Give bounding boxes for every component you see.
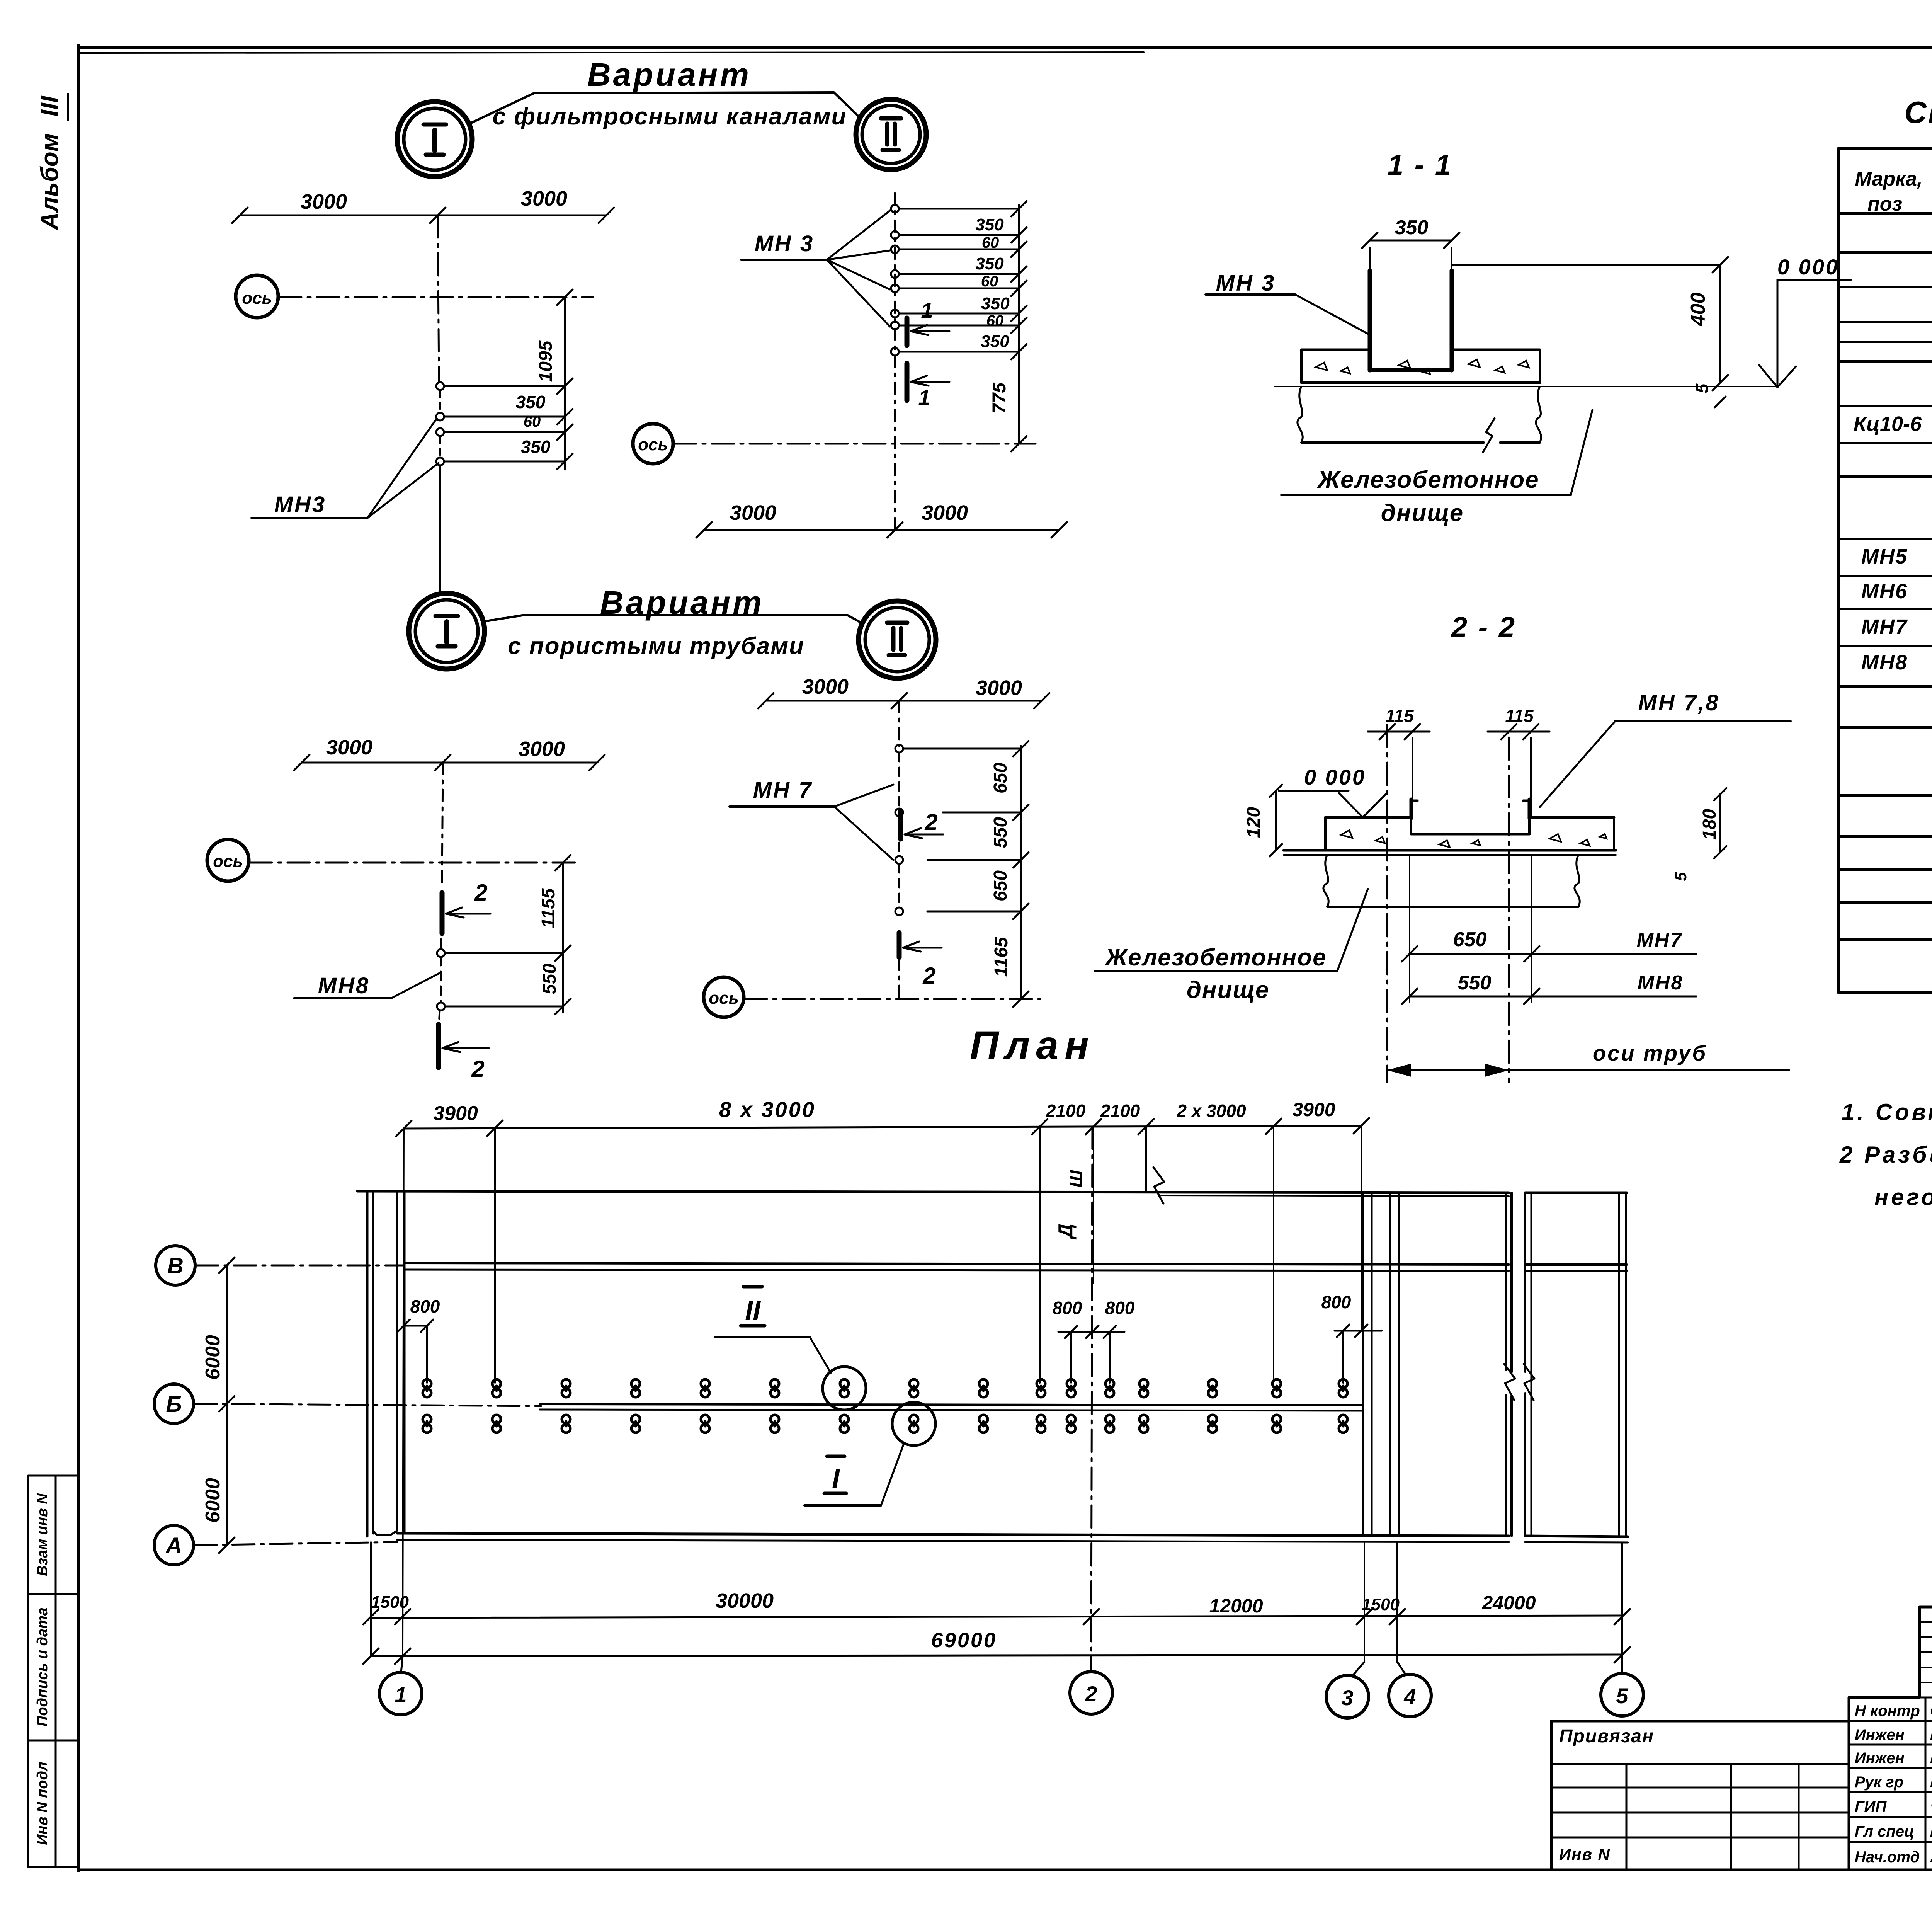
svg-text:2: 2 <box>471 1056 484 1082</box>
deformation joint label Дш <box>1054 1127 1094 1284</box>
aggregate marks (section 2-2) <box>1341 830 1607 847</box>
svg-text:650: 650 <box>990 763 1011 793</box>
svg-text:Инжен: Инжен <box>1855 1726 1905 1743</box>
label МН3 with leader (drawing A) <box>252 419 439 518</box>
svg-text:800: 800 <box>1321 1292 1351 1312</box>
spec row МН8 <box>1861 646 1932 675</box>
svg-text:I: I <box>832 1463 840 1494</box>
svg-text:350: 350 <box>981 294 1010 313</box>
section mark 1 upper (drawing B) <box>907 298 949 346</box>
embed circles МН3 (drawing B) <box>891 205 899 356</box>
svg-text:Альбом: Альбом <box>36 133 63 231</box>
circled rivet II (plan) <box>823 1367 866 1410</box>
plan axis 1 vertical <box>401 1129 404 1672</box>
svg-text:3900: 3900 <box>433 1102 478 1125</box>
svg-text:1095: 1095 <box>536 340 556 382</box>
svg-text:Козловичер: Козловичер <box>1930 1825 1932 1840</box>
svg-text:МН 3: МН 3 <box>755 231 815 256</box>
svg-text:3000: 3000 <box>301 190 347 213</box>
title block frame <box>1849 1607 1932 1870</box>
axis circle ось (drawing D) <box>704 977 1040 1017</box>
svg-text:2 x 3000: 2 x 3000 <box>1176 1101 1246 1121</box>
svg-text:0 000: 0 000 <box>1304 765 1366 789</box>
svg-text:60: 60 <box>524 413 541 430</box>
dimension line 3000/3000 (drawing A top) <box>232 187 614 223</box>
svg-text:60: 60 <box>981 273 998 290</box>
axis circle ось (drawing C) <box>207 839 580 881</box>
dim 180 (section 2-2) <box>1699 788 1726 858</box>
dimension line 3000/3000 (drawing D top) <box>758 675 1049 708</box>
svg-text:2: 2 <box>474 880 487 906</box>
plan joint walls axes 3-4 <box>1363 1193 1399 1536</box>
vertical dim 6000/6000 (plan left) <box>202 1258 235 1553</box>
svg-text:Чирков: Чирков <box>1930 1798 1932 1815</box>
svg-text:2: 2 <box>922 963 935 989</box>
axis circle ось (drawing A) <box>236 275 593 318</box>
svg-text:5: 5 <box>1693 383 1712 393</box>
axis bubble 5 (plan) <box>1601 1674 1643 1716</box>
svg-text:днище: днище <box>1381 500 1464 526</box>
section bubble II (variant 2) <box>859 601 936 678</box>
centerline drawing D <box>898 701 900 999</box>
axis circle Б <box>154 1384 541 1423</box>
svg-text:2 Разбивка закладных изде: 2 Разбивка закладных изделий для сред- <box>1839 1142 1932 1168</box>
svg-text:2100: 2100 <box>1046 1101 1086 1121</box>
dim lines 350/60/350 (drawing A) <box>445 386 565 461</box>
svg-text:2100: 2100 <box>1100 1101 1140 1121</box>
svg-text:1155: 1155 <box>538 888 559 928</box>
break marks on plan walls <box>1153 1167 1534 1400</box>
title block role labels and names <box>1855 1702 1932 1866</box>
axis bubble 4 (plan) <box>1389 1674 1431 1717</box>
section mark 2 upper (drawing C) <box>442 880 490 933</box>
svg-text:ГИП: ГИП <box>1855 1798 1887 1815</box>
svg-text:350: 350 <box>981 332 1009 351</box>
svg-text:МН8: МН8 <box>1638 972 1684 994</box>
svg-text:12000: 12000 <box>1209 1595 1263 1617</box>
svg-text:0 000: 0 000 <box>1777 255 1839 279</box>
label II with leader (plan) <box>715 1287 831 1373</box>
plan axis 2 vertical <box>1091 1127 1092 1671</box>
dim lines 350/60 set (drawing B) <box>900 209 1019 352</box>
spec table grid <box>1838 149 1932 992</box>
svg-text:Вариант: Вариант <box>587 56 751 93</box>
svg-text:60: 60 <box>986 312 1004 329</box>
vertical dim line drawing B <box>989 201 1027 451</box>
svg-text:3000: 3000 <box>730 501 776 524</box>
svg-text:Привязан: Привязан <box>1559 1726 1654 1747</box>
title block name rows grid <box>1849 1697 1932 1870</box>
svg-text:Альтшуллер: Альтшуллер <box>1930 1851 1932 1865</box>
svg-text:4: 4 <box>1403 1684 1416 1709</box>
svg-text:550: 550 <box>990 817 1011 848</box>
svg-text:ось: ось <box>213 852 243 871</box>
dim lines 1155/550 (drawing C) <box>446 855 571 1014</box>
svg-text:Подпись и дата: Подпись и дата <box>34 1607 51 1726</box>
axis bubble 1 (plan) <box>379 1672 422 1715</box>
section mark 1 lower (drawing B) <box>907 363 949 410</box>
centerline drawing C <box>439 763 443 1024</box>
binding table Привязан <box>1551 1721 1849 1870</box>
svg-text:Рук гр: Рук гр <box>1855 1774 1903 1791</box>
svg-text:115: 115 <box>1385 706 1414 726</box>
svg-text:350: 350 <box>516 392 546 412</box>
svg-text:Цветкова: Цветкова <box>1930 1750 1932 1767</box>
axis circle В <box>156 1246 404 1285</box>
centerline drawing A <box>438 215 440 591</box>
dim 5 (section 2-2) <box>1672 872 1690 881</box>
svg-text:550: 550 <box>1458 972 1492 994</box>
svg-text:А: А <box>165 1533 182 1558</box>
grid extension verticals from top dims <box>495 1126 1361 1383</box>
svg-text:ось: ось <box>242 289 272 308</box>
rivet embed pairs row (plan) <box>423 1379 1347 1433</box>
level mark 0.000 (section 2-2) <box>1279 765 1387 817</box>
svg-text:1 - 1: 1 - 1 <box>1388 149 1452 181</box>
dim 800 right (plan) <box>1321 1292 1382 1383</box>
dim lines 650/550/650/1165 (drawing D) <box>904 741 1029 1007</box>
level mark 0.000 (section 1-1) <box>1759 255 1851 387</box>
circled rivet I (plan) <box>892 1402 935 1445</box>
spec table header texts <box>1855 163 1932 215</box>
svg-text:ось: ось <box>709 989 738 1008</box>
svg-text:ось: ось <box>638 435 668 454</box>
bottom slab днище (section 1-1) <box>1298 386 1541 452</box>
svg-text:Инв N: Инв N <box>1559 1845 1611 1863</box>
label МН 7,8 (section 2-2) <box>1540 690 1791 807</box>
centerline drawing B <box>894 193 896 530</box>
spec row МН5 <box>1861 543 1932 568</box>
svg-text:Инжен: Инжен <box>1855 1750 1905 1767</box>
topping slab (section 1-1) <box>1275 350 1777 386</box>
dims 800 800 near axis 2 (plan) <box>1053 1298 1135 1383</box>
label МН8 with leader (drawing C) <box>294 973 439 998</box>
channel walls МН3 (section 1-1) <box>1370 271 1452 370</box>
vertical dim line 1095 (drawing A) <box>536 289 573 470</box>
leader line variant1 <box>469 92 859 124</box>
embed circles МН7 (drawing D) <box>895 745 903 915</box>
svg-text:1165: 1165 <box>991 936 1012 977</box>
label МН 3 (section 1-1) <box>1206 271 1371 335</box>
svg-text:поз: поз <box>1867 193 1902 215</box>
label Железобетонное днище (section 1-1) <box>1281 410 1592 526</box>
svg-text:2: 2 <box>924 809 937 835</box>
svg-text:800: 800 <box>410 1296 440 1316</box>
svg-text:650: 650 <box>1453 928 1487 951</box>
svg-text:180: 180 <box>1699 809 1720 840</box>
axis bubble 3 (plan) <box>1326 1675 1369 1718</box>
label оси труб (section 2-2) <box>1387 1041 1789 1077</box>
svg-text:2: 2 <box>1085 1682 1097 1706</box>
svg-text:МН3: МН3 <box>274 492 326 517</box>
pipe axis lines (section 2-2) <box>1387 725 1509 1082</box>
section mark 2 upper (drawing D) <box>901 809 943 839</box>
svg-text:69000: 69000 <box>931 1629 997 1652</box>
svg-text:2 - 2: 2 - 2 <box>1451 611 1516 643</box>
svg-text:Кц10-6: Кц10-6 <box>1854 412 1922 436</box>
axis circle ось (drawing B) <box>633 424 1036 464</box>
svg-text:Марка,: Марка, <box>1855 168 1923 190</box>
svg-text:днище: днище <box>1187 977 1270 1003</box>
svg-text:24000: 24000 <box>1481 1592 1536 1614</box>
svg-text:3: 3 <box>1341 1685 1353 1710</box>
leader line variant2 <box>484 615 862 623</box>
svg-text:5: 5 <box>1616 1684 1628 1708</box>
axis circle А <box>154 1525 397 1565</box>
svg-text:МН6: МН6 <box>1861 580 1908 603</box>
svg-text:350: 350 <box>975 215 1004 234</box>
label МН3 with leaders (drawing B) <box>741 211 890 327</box>
svg-text:800: 800 <box>1053 1298 1082 1318</box>
svg-text:115: 115 <box>1505 706 1534 726</box>
svg-text:Нач.отд: Нач.отд <box>1855 1849 1920 1866</box>
svg-text:3000: 3000 <box>922 501 968 524</box>
subtitle с фильтросными каналами <box>492 103 847 130</box>
spec row МН6 <box>1861 578 1932 603</box>
svg-text:650: 650 <box>990 870 1011 901</box>
svg-text:1: 1 <box>921 298 933 322</box>
svg-text:1. Совместно с данным см л: 1. Совместно с данным см л л КЖ-46,47 <box>1842 1099 1932 1125</box>
spec row МН7 <box>1861 610 1932 639</box>
subtitle с пористыми трубами <box>508 633 804 659</box>
svg-text:с фильтросными каналами: с фильтросными каналами <box>492 103 847 130</box>
dim 350 (section 1-1) <box>1362 216 1459 271</box>
label I with leader (plan) <box>804 1445 903 1505</box>
svg-text:Спецификация: Спецификация <box>1905 95 1932 129</box>
svg-text:В: В <box>167 1253 184 1279</box>
dim 800 left (plan) <box>398 1296 440 1383</box>
svg-text:оси труб: оси труб <box>1593 1041 1707 1065</box>
dim 5 (section 1-1) <box>1693 383 1726 407</box>
svg-text:350: 350 <box>1395 216 1429 239</box>
svg-text:1500: 1500 <box>371 1593 409 1612</box>
title Вариант (porous pipes) <box>600 584 764 621</box>
topping slab (section 2-2) <box>1284 817 1616 855</box>
note 2 Разбивка закладных <box>1839 1142 1932 1210</box>
svg-text:МН 3: МН 3 <box>1216 271 1276 296</box>
svg-text:6000: 6000 <box>202 1335 224 1380</box>
big label План <box>970 1023 1095 1068</box>
bottom slab днище (section 2-2) <box>1323 855 1580 907</box>
section bubble I (variant 2) <box>409 593 485 669</box>
svg-text:Д: Д <box>1054 1224 1077 1240</box>
album label Альбом III <box>36 94 68 231</box>
svg-text:с пористыми трубами: с пористыми трубами <box>508 633 804 659</box>
svg-text:775: 775 <box>989 382 1010 414</box>
note 1 Совместно с данным <box>1842 1099 1932 1125</box>
svg-text:Железобетонное: Железобетонное <box>1316 466 1539 493</box>
svg-text:МН8: МН8 <box>1861 651 1908 674</box>
svg-text:400: 400 <box>1687 293 1709 327</box>
svg-text:него пролета аналогична да: него пролета аналогична данной <box>1874 1184 1932 1210</box>
section mark 2 lower (drawing D) <box>899 933 942 989</box>
title block upper small rows <box>1920 1607 1932 1697</box>
svg-text:550: 550 <box>539 964 560 994</box>
embed hooks МН7,8 (section 2-2) <box>1411 799 1529 819</box>
plan top dimension chain 3900 / 8x3000 / 2100 2100 / 2x3000 / 3900 <box>396 1097 1369 1136</box>
plan lower dim line 1500/30000/12000/1500/24000 <box>363 1589 1630 1624</box>
label Железобетонное днище (section 2-2) <box>1095 889 1368 1003</box>
svg-text:350: 350 <box>975 254 1004 273</box>
dimension line 3000/3000 (drawing B bottom) <box>696 501 1067 538</box>
svg-text:Гл спец: Гл спец <box>1855 1823 1914 1840</box>
svg-text:Ш: Ш <box>1066 1170 1086 1188</box>
svg-text:30000: 30000 <box>716 1589 774 1612</box>
svg-text:План: План <box>970 1023 1095 1068</box>
svg-text:III: III <box>36 95 63 117</box>
aggregate marks (section 1-1) <box>1316 359 1529 374</box>
spec table title Спецификация элементов на блок <box>1905 95 1932 129</box>
axis bubble 2 (plan) <box>1070 1672 1112 1714</box>
label МН7 with leaders (drawing D) <box>730 778 893 860</box>
svg-text:1500: 1500 <box>1362 1595 1400 1614</box>
svg-text:6000: 6000 <box>202 1478 224 1523</box>
svg-text:3000: 3000 <box>521 187 567 210</box>
embed circles МН3 (drawing A) <box>436 382 444 465</box>
svg-text:МН7: МН7 <box>1861 615 1908 638</box>
title Вариант (filter channels) <box>587 56 751 93</box>
svg-text:МН8: МН8 <box>318 973 370 998</box>
svg-text:350: 350 <box>521 437 551 457</box>
plan tank walls <box>357 1191 1628 1542</box>
svg-text:МН 7,8: МН 7,8 <box>1638 690 1720 715</box>
section bubble I (variant 1) <box>397 102 472 177</box>
svg-text:Взам инв N: Взам инв N <box>34 1493 51 1576</box>
svg-text:8 x 3000: 8 x 3000 <box>719 1097 816 1122</box>
dims 115/115 (section 2-2) <box>1368 706 1549 816</box>
dim 120 (section 2-2) <box>1243 785 1282 856</box>
svg-text:3000: 3000 <box>326 736 372 759</box>
svg-text:3900: 3900 <box>1292 1099 1335 1120</box>
svg-text:II: II <box>745 1296 761 1326</box>
svg-text:МН7: МН7 <box>1637 929 1683 952</box>
svg-text:Н контр: Н контр <box>1855 1702 1920 1720</box>
svg-text:60: 60 <box>982 234 999 251</box>
svg-text:5: 5 <box>1672 872 1690 881</box>
svg-text:3000: 3000 <box>802 675 849 698</box>
spec row Кц10-6 <box>1854 411 1932 438</box>
section title 2-2 <box>1451 611 1516 643</box>
svg-text:1: 1 <box>395 1682 406 1707</box>
svg-text:МН 7: МН 7 <box>753 778 813 803</box>
svg-text:120: 120 <box>1243 807 1264 838</box>
svg-text:800: 800 <box>1105 1298 1135 1318</box>
svg-text:Петропавловска: Петропавловска <box>1930 1728 1932 1743</box>
svg-text:1: 1 <box>918 385 930 410</box>
svg-text:3000: 3000 <box>519 737 565 761</box>
svg-text:Железобетонное: Железобетонное <box>1104 944 1327 971</box>
dim 550 МН8 (section 2-2) <box>1402 972 1696 1004</box>
section bubble II (variant 1) <box>856 99 926 170</box>
dim 650 МН7 (section 2-2) <box>1402 928 1696 962</box>
dimension line 3000/3000 (drawing C top) <box>294 736 605 770</box>
svg-text:МН5: МН5 <box>1861 545 1908 568</box>
svg-text:Б: Б <box>166 1392 182 1417</box>
section title 1-1 <box>1388 149 1452 181</box>
svg-text:Инв N подл: Инв N подл <box>34 1762 51 1845</box>
plan overall dim line 69000 <box>363 1629 1630 1664</box>
svg-text:Гарбуз: Гарбуз <box>1930 1774 1932 1791</box>
embed circles МН8 (drawing C) <box>437 949 445 1010</box>
side strip table (Инв N подл / Подпись и дата / Взам инв N) <box>28 1476 78 1867</box>
plan compartment walls right <box>1506 1193 1626 1537</box>
svg-text:Семенова: Семенова <box>1930 1702 1932 1720</box>
dim extension lines (section 2-2) <box>1410 855 1532 1002</box>
section mark 2 lower (drawing C) <box>439 1025 489 1082</box>
svg-text:3000: 3000 <box>976 676 1022 700</box>
plan axis 3-4-5 verticals <box>1352 1542 1622 1676</box>
dim 400 (section 1-1) <box>1452 257 1728 390</box>
plan slab edge vertical (1500 offset) <box>370 1542 372 1656</box>
